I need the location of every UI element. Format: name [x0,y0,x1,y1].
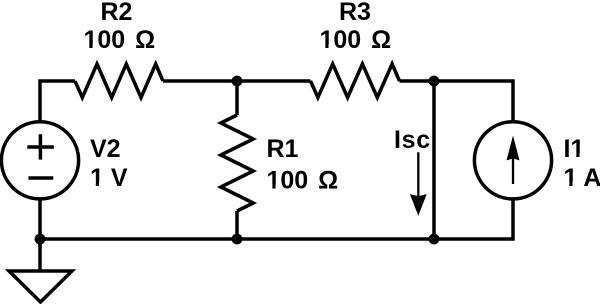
junction node (434,81) [429,76,440,87]
svg-text:R2: R2 [101,0,133,26]
wire top-left corner [40,81,75,123]
patch 1-foot I1val [564,182,578,187]
patch 1-foot R1val [267,185,281,190]
wire ground stem [38,239,42,271]
svg-text:R1: R1 [267,135,299,163]
Isc arrow [410,152,427,216]
wire Isc net [432,81,436,239]
wire top middle [163,79,311,83]
junction node (40,239) [35,234,46,245]
ground [9,271,72,302]
patch 1-foot I1 [571,153,585,158]
wire bottom rail [40,198,513,239]
resistor R2 [75,64,163,98]
svg-text:100 Ω: 100 Ω [84,26,156,54]
voltage source V2 [1,122,78,199]
patch 1-foot V2val [91,182,105,187]
resistor R3 [311,64,400,98]
resistor R1 [221,115,253,211]
wire V2 bottom [38,198,42,239]
wire top right [400,81,514,123]
patch 1-foot R3val [320,44,334,49]
patch 1-foot R2val [84,44,98,49]
svg-text:R3: R3 [339,0,371,26]
V2 plus sign [27,134,54,178]
svg-text:I1: I1 [564,135,585,163]
svg-text:Isc: Isc [394,126,431,154]
junction node (237,239) [232,234,243,245]
V2 minus sign [28,176,53,180]
wire R1 top [235,81,239,115]
current source I1 [474,122,551,199]
svg-text:1 V: 1 V [90,164,128,192]
svg-text:100 Ω: 100 Ω [267,166,339,194]
svg-text:100 Ω: 100 Ω [320,26,392,54]
svg-text:V2: V2 [90,135,121,163]
svg-text:1 A: 1 A [564,164,600,192]
junction node (434,239) [429,234,440,245]
I1 arrow [507,136,520,185]
junction node (237,81) [232,76,243,87]
wire R1 bottom [235,211,239,239]
